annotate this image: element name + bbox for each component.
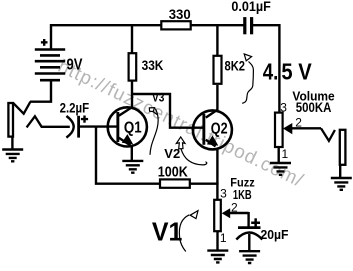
capacitor C1 plus sign — [81, 116, 88, 123]
ground under output jack — [331, 178, 352, 190]
svg-text:9V: 9V — [67, 57, 83, 74]
svg-text:0.01µF: 0.01µF — [231, 0, 271, 14]
transistor Q2 circle — [193, 110, 232, 149]
wire battery bottom to jack — [30, 80, 52, 102]
wire Q2 collector riser below 8K2 — [216, 85, 218, 110]
svg-text:20µF: 20µF — [261, 227, 289, 242]
svg-text:500KA: 500KA — [296, 100, 332, 115]
potentiometer VR2 wiper arrow — [222, 208, 231, 218]
capacitor C3 20uF curved plate — [236, 233, 262, 240]
wire Q1 collector to Q2 base link — [131, 81, 203, 128]
battery plus sign — [41, 39, 48, 46]
svg-text:5 V: 5 V — [281, 58, 312, 84]
wire 33K riser — [131, 24, 133, 53]
resistor R3 8K2 — [214, 56, 222, 84]
capacitor C2 0.01uF plates — [243, 17, 253, 34]
transistor Q2 base bar — [202, 114, 205, 145]
ground under Q1 — [122, 161, 143, 173]
svg-text:8K2: 8K2 — [225, 59, 246, 74]
input jack second prong to cap — [27, 116, 70, 127]
svg-text:4.: 4. — [263, 58, 279, 84]
wire fuzz pot bottom — [216, 232, 218, 251]
svg-text:1: 1 — [282, 147, 289, 161]
resistor R4 100K — [160, 179, 190, 187]
svg-text:V3: V3 — [152, 93, 164, 105]
svg-text:V2: V2 — [164, 146, 180, 161]
potentiometer VR2 fuzz body — [214, 200, 221, 231]
transistor Q1 circle — [108, 107, 147, 146]
svg-text:1: 1 — [220, 231, 227, 245]
resistor R1 330 — [161, 21, 190, 29]
transistor Q1 emitter arrow — [122, 134, 133, 144]
svg-text:V1: V1 — [152, 219, 183, 247]
wire battery top riser and left rail — [50, 25, 161, 50]
potentiometer VR1 wiper arrow — [283, 123, 292, 134]
transistor Q1 emitter diagonal — [119, 138, 131, 146]
annotation arrow V2 — [176, 137, 207, 165]
wire 100K to Q2 emitter — [190, 182, 219, 184]
wire rail 330 to cap — [191, 24, 244, 26]
transistor Q1 base bar — [116, 112, 119, 142]
potentiometer VR1 volume body — [275, 113, 283, 147]
wire 20uF stub to ground — [248, 234, 250, 251]
ground under volume pot — [270, 163, 291, 175]
input jack J1 body — [8, 103, 13, 137]
annotation cursor V3 — [149, 108, 158, 155]
svg-text:2: 2 — [231, 200, 238, 214]
svg-text:2: 2 — [295, 116, 302, 130]
wire 8K2 riser top — [216, 24, 218, 55]
svg-text:Q1: Q1 — [124, 119, 142, 136]
transistor Q2 collector diagonal — [206, 110, 217, 118]
svg-text:3: 3 — [280, 101, 287, 115]
wire Q2 emitter riser — [216, 150, 218, 200]
output jack J2 body — [340, 130, 346, 165]
battery B1 9V plates — [35, 50, 65, 81]
capacitor C3 20uF straight plate — [238, 226, 261, 229]
wire volume wiper to output jack — [292, 127, 322, 129]
wire volume pot bottom — [278, 147, 280, 163]
wire cap to Q1 base — [80, 125, 117, 127]
input jack sleeve stub — [11, 136, 13, 149]
transistor Q2 emitter diagonal — [206, 140, 216, 147]
wire Q1 emitter riser — [131, 147, 133, 161]
ground under 20uF — [239, 251, 260, 263]
capacitor C1 2.2uF curved plate — [66, 116, 73, 138]
annotation cursor 4.5V — [242, 54, 253, 103]
svg-text:330: 330 — [169, 7, 191, 22]
input jack tip prong V — [13, 102, 30, 114]
output jack J2 prong V — [321, 128, 335, 141]
annotation squiggle V1 — [179, 211, 198, 252]
capacitor C1 straight plate — [77, 116, 80, 138]
wire fuzz wiper to 20uF — [230, 212, 249, 227]
ground under fuzz pot — [207, 251, 228, 263]
ground under input jack — [2, 150, 23, 162]
capacitor C3 plus sign — [251, 218, 260, 227]
wire cap to corner and volume riser — [253, 24, 280, 113]
resistor R2 33K — [129, 53, 137, 80]
transistor Q2 emitter arrow — [207, 135, 218, 145]
output jack stub — [339, 165, 341, 178]
svg-text:33K: 33K — [142, 58, 164, 74]
transistor Q1 collector diagonal — [119, 107, 132, 116]
svg-text:3: 3 — [220, 187, 227, 201]
svg-text:2.2µF: 2.2µF — [60, 100, 90, 115]
svg-text:Q2: Q2 — [211, 120, 228, 137]
wire junction drop to 100K — [95, 127, 160, 184]
svg-text:100K: 100K — [158, 165, 189, 181]
